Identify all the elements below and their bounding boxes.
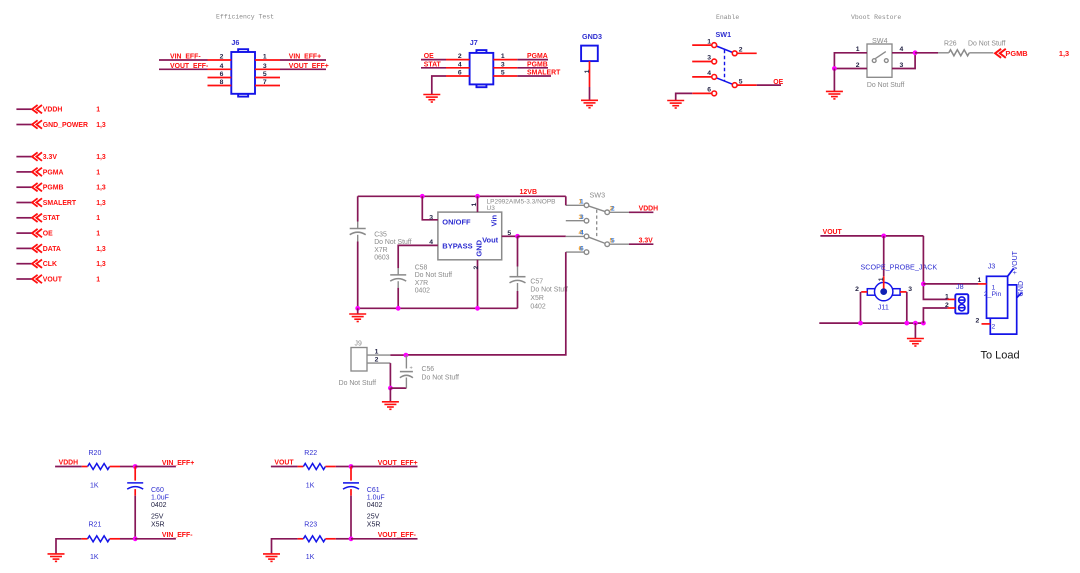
wire to ground SW4 (833, 69, 835, 92)
svg-text:3: 3 (580, 214, 584, 221)
wire VOUT rail (820, 235, 923, 237)
svg-text:Do Not Stuff: Do Not Stuff (867, 82, 904, 89)
J8 pin 2 (948, 307, 956, 309)
svg-text:4: 4 (580, 230, 584, 237)
svg-text:3.3V: 3.3V (43, 154, 58, 161)
wire to C56 bottom (390, 387, 406, 389)
junction vertical / J3 pin1 (921, 282, 926, 287)
svg-text:1: 1 (707, 38, 711, 45)
wire OE to J7 (421, 59, 446, 61)
wire VOUT_EFF+ ext (392, 466, 418, 468)
wire GND vertical to J8 pin2 (923, 308, 947, 323)
svg-text:1K: 1K (306, 482, 315, 489)
svg-text:PGMB: PGMB (527, 61, 548, 68)
J7 pin 2 (446, 59, 470, 61)
svg-text:1.0uF: 1.0uF (151, 494, 169, 501)
svg-text:0402: 0402 (151, 502, 167, 509)
svg-text:1,3: 1,3 (96, 154, 106, 161)
svg-text:J7: J7 (470, 38, 478, 47)
svg-text:1: 1 (96, 231, 100, 238)
svg-text:1: 1 (584, 69, 591, 73)
junction J9 / C56 (404, 353, 409, 358)
svg-text:2: 2 (945, 302, 949, 309)
svg-text:VIN_EFF-: VIN_EFF- (170, 54, 201, 61)
wire VIN_EFF- left (159, 59, 208, 61)
wire 12VB to SW3 pin1 (565, 196, 567, 205)
SW1 pin 6 (712, 91, 717, 96)
svg-text:SMALERT: SMALERT (43, 200, 77, 207)
J9 pin 1 (367, 354, 390, 356)
svg-text:OE: OE (773, 79, 783, 86)
port VDDH chevron (32, 105, 42, 113)
svg-text:1,3: 1,3 (96, 200, 106, 207)
svg-text:U3: U3 (487, 205, 496, 212)
svg-text:1: 1 (945, 294, 949, 301)
svg-text:8: 8 (220, 79, 224, 86)
SW1 lever 1-2 (716, 46, 732, 53)
svg-text:VIN_EFF+: VIN_EFF+ (289, 54, 321, 61)
wire port OE (16, 232, 31, 234)
svg-text:1: 1 (978, 277, 982, 284)
svg-text:VDDH: VDDH (43, 107, 63, 114)
junction VIN_EFF- (133, 536, 138, 541)
svg-text:SW1: SW1 (716, 30, 732, 39)
wire VIN_EFF- (135, 538, 176, 540)
junction rail / J11 pin2 (858, 321, 863, 326)
J7 pin 3 (493, 67, 517, 69)
svg-text:2_Pin: 2_Pin (984, 291, 1002, 298)
svg-text:VDDH: VDDH (639, 206, 659, 213)
wire VIN_EFF+ right (280, 59, 326, 61)
junction rail / vertical (921, 321, 926, 326)
svg-text:VOUT_EFF+: VOUT_EFF+ (289, 63, 329, 70)
svg-text:J11: J11 (878, 302, 889, 311)
wire Vout to SW3 (518, 235, 566, 237)
svg-text:CLK: CLK (43, 261, 57, 268)
svg-text:VIN_EFF-: VIN_EFF- (162, 532, 193, 539)
U3 pin 2 wire (477, 260, 479, 309)
port DATA chevron (32, 244, 42, 252)
svg-text:12VB: 12VB (520, 189, 538, 196)
svg-text:J9: J9 (355, 341, 362, 348)
svg-text:C35: C35 (374, 232, 387, 239)
svg-text:5: 5 (507, 230, 511, 237)
junction Vout / C57 (515, 234, 520, 239)
wire VDDH from SW3 pin2 (629, 211, 653, 213)
wire C57 to gnd rail (517, 291, 519, 308)
svg-text:4: 4 (707, 70, 711, 77)
svg-text:R20: R20 (89, 450, 102, 457)
svg-text:5: 5 (611, 237, 615, 244)
wire SMALERT (517, 75, 551, 77)
junction SW4 left (832, 66, 837, 71)
svg-text:Efficiency Test: Efficiency Test (216, 14, 274, 21)
svg-text:1: 1 (471, 202, 478, 206)
wire port CLK (16, 263, 31, 265)
svg-text:0402: 0402 (415, 288, 430, 295)
svg-text:1: 1 (375, 348, 379, 355)
wire Vout down to C57 (517, 236, 519, 266)
svg-text:Vout: Vout (482, 236, 499, 245)
J7 pin 4 (446, 67, 470, 69)
ground at C56 (382, 402, 399, 410)
svg-text:X5R: X5R (530, 295, 543, 302)
svg-text:4: 4 (220, 63, 224, 70)
svg-text:PGMB: PGMB (1005, 49, 1027, 58)
svg-text:1: 1 (878, 277, 885, 281)
J6 pin 2 (208, 59, 232, 61)
wire to R26 (915, 52, 938, 54)
SW1 pin 3 (712, 59, 717, 64)
svg-text:2: 2 (976, 317, 980, 324)
wire SW1 pin6 to ground (676, 93, 693, 100)
wire SW4 pin1 (834, 53, 867, 69)
wire port SMALERT (16, 202, 31, 204)
svg-text:1,3: 1,3 (96, 261, 106, 268)
wire port PGMA (16, 171, 31, 173)
wire port VDDH (16, 108, 31, 110)
junction VOUT_EFF- (349, 536, 354, 541)
wire SW4 pin2 (834, 68, 867, 70)
U3 pin 1 wire (477, 196, 479, 212)
wire ground rail (right) (819, 322, 923, 324)
J11 pin 3 (900, 291, 907, 293)
wire C58 to gnd rail (397, 288, 399, 309)
ground below GND3 (581, 100, 598, 108)
svg-text:1K: 1K (90, 482, 99, 489)
wire VOUT_EFF+ (351, 466, 392, 468)
svg-text:R23: R23 (304, 521, 317, 528)
SW1 pin 1 (712, 43, 717, 48)
junction VIN_EFF+ (133, 464, 138, 469)
svg-text:SW3: SW3 (590, 190, 606, 199)
junction SW4 right (913, 50, 918, 55)
wire C35 to gnd rail (357, 242, 359, 309)
svg-text:0402: 0402 (367, 502, 383, 509)
SW4 contacts (872, 52, 888, 63)
svg-text:1,3: 1,3 (96, 246, 106, 253)
wire J11 pin3 down (906, 292, 908, 323)
svg-text:Vboot Restore: Vboot Restore (851, 14, 901, 21)
port STAT chevron (32, 214, 42, 222)
svg-text:Do Not Stuff: Do Not Stuff (968, 40, 1005, 47)
wire port 3.3V (16, 156, 31, 158)
SW3 pin 3 (584, 218, 589, 223)
wire GND3 to ground (589, 87, 591, 100)
J6 pin 1 (255, 59, 280, 61)
svg-text:C61: C61 (367, 487, 380, 494)
capacitor C56 (405, 355, 407, 368)
svg-text:OE: OE (424, 53, 434, 60)
svg-text:5: 5 (739, 78, 743, 85)
J7 pin 5 (493, 75, 517, 77)
svg-text:2: 2 (992, 324, 996, 331)
wire port DATA (16, 247, 31, 249)
svg-text:0603: 0603 (374, 254, 389, 261)
svg-text:VOUT: VOUT (823, 229, 843, 236)
svg-text:2: 2 (458, 53, 462, 60)
U3 pin 5 wire (502, 235, 518, 237)
svg-text:6: 6 (220, 71, 224, 78)
ground at right rail (907, 339, 924, 347)
svg-text:1: 1 (96, 215, 100, 222)
port 3.3V chevron (32, 152, 42, 160)
capacitor C35 (350, 229, 366, 235)
svg-text:7: 7 (263, 79, 267, 86)
svg-text:5: 5 (263, 71, 267, 78)
capacitor C60 (134, 467, 136, 481)
wire VOUT_EFF- left (159, 68, 208, 70)
wire SW4 pin4 (892, 52, 915, 54)
junction rail / J11 pin3 (904, 321, 909, 326)
wire PGMB (517, 67, 548, 69)
svg-text:1: 1 (96, 276, 100, 283)
SW3 lever 1-2 (589, 206, 605, 212)
J6 pin 7 (255, 85, 280, 87)
svg-text:Enable: Enable (716, 14, 739, 21)
svg-text:VOUT: VOUT (43, 276, 63, 283)
wire 12VB down to C35 (357, 196, 359, 221)
svg-text:PGMB: PGMB (43, 185, 64, 192)
port PGMB chevron (32, 183, 42, 191)
svg-text:+: + (410, 366, 413, 372)
wire J7 pin6 to ground (432, 76, 446, 95)
svg-text:1,3: 1,3 (96, 185, 106, 192)
wire to ground (right) (914, 323, 916, 338)
wire VOUT_EFF+ right (280, 68, 326, 70)
svg-text:DATA: DATA (43, 246, 61, 253)
svg-text:X7R: X7R (374, 247, 387, 254)
svg-text:4: 4 (458, 61, 462, 68)
svg-text:OE: OE (43, 231, 53, 238)
port CLK chevron (32, 260, 42, 268)
J11 pin 2 (861, 291, 867, 293)
SW1 dashed link (724, 50, 726, 81)
wire rail to ground (357, 308, 359, 314)
op-amp U3 LP2992 regulator (438, 212, 502, 260)
svg-text:X7R: X7R (415, 280, 428, 287)
svg-text:3: 3 (429, 214, 433, 221)
wire J11 pin2 down (860, 292, 862, 323)
svg-text:C56: C56 (422, 366, 435, 373)
U3 pin 4 wire (398, 245, 438, 268)
wire J9 pin1 to node (390, 354, 406, 356)
SW3 pin 4 (584, 234, 589, 239)
port SMALERT chevron (32, 198, 42, 206)
svg-text:1K: 1K (306, 554, 315, 561)
capacitor C58 (390, 275, 406, 281)
svg-text:VIN_EFF+: VIN_EFF+ (162, 460, 194, 467)
wire port PGMB (16, 186, 31, 188)
svg-text:2: 2 (220, 54, 224, 61)
wire OE from SW1 (757, 84, 781, 86)
svg-text:GND3: GND3 (582, 32, 602, 41)
J6 pin 5 (255, 77, 280, 79)
svg-text:VDDH: VDDH (59, 460, 79, 467)
svg-text:6: 6 (707, 87, 711, 94)
svg-text:J6: J6 (231, 38, 239, 47)
svg-text:BYPASS: BYPASS (442, 241, 472, 250)
svg-text:25V: 25V (151, 513, 164, 520)
svg-text:C60: C60 (151, 487, 164, 494)
J6 pin 4 (208, 68, 232, 70)
ground at J7 (423, 95, 440, 103)
svg-text:2: 2 (611, 206, 615, 213)
svg-text:GND: GND (1018, 281, 1025, 297)
J11 body (867, 282, 900, 300)
SW3 pin 5 (605, 242, 610, 247)
svg-text:Do Not Stuff: Do Not Stuff (339, 380, 376, 387)
wire SW4 pin3 (892, 53, 915, 69)
svg-text:Vin: Vin (490, 215, 499, 227)
SW1 pin 5 (732, 83, 737, 88)
svg-text:R26: R26 (944, 40, 957, 47)
svg-text:1: 1 (96, 169, 100, 176)
ground at R23 (263, 554, 280, 562)
SW3 lever 4-5 (589, 237, 605, 243)
svg-text:Do Not Stuff: Do Not Stuff (422, 374, 459, 381)
junction 12VB / ON-OFF (420, 194, 425, 199)
svg-text:25V: 25V (367, 513, 380, 520)
svg-text:PGMA: PGMA (43, 169, 64, 176)
J6 pin 8 (208, 85, 232, 87)
svg-text:2: 2 (375, 356, 379, 363)
wire port VOUT (16, 278, 31, 280)
wire 12VB rail (358, 195, 566, 197)
svg-text:J3: J3 (988, 261, 996, 270)
svg-text:1,3: 1,3 (1059, 49, 1069, 58)
svg-text:2: 2 (739, 47, 743, 54)
svg-text:LP2992AIM5-3.3/NOPB: LP2992AIM5-3.3/NOPB (487, 199, 556, 206)
svg-text:Do Not Stuff: Do Not Stuff (530, 287, 567, 294)
wire down to J11 pin1 (883, 236, 885, 276)
junction rail / C35 (355, 306, 360, 311)
junction rail / C58 (396, 306, 401, 311)
J11 pin 1 (883, 276, 885, 288)
junction VOUT_EFF+ (349, 464, 354, 469)
svg-text:GND_POWER: GND_POWER (43, 122, 88, 129)
wire VOUT vertical (923, 236, 947, 300)
svg-text:6: 6 (580, 245, 584, 252)
junction C56 gnd (388, 386, 393, 391)
wire port STAT (16, 217, 31, 219)
wire J9 pin2 down (389, 363, 391, 388)
svg-text:0402: 0402 (530, 304, 545, 311)
port VOUT chevron (32, 275, 42, 283)
svg-text:STAT: STAT (43, 215, 61, 222)
junction rail / ground tap (913, 321, 918, 326)
J3 pin 2 stub (982, 323, 991, 325)
wire PGMA (517, 59, 548, 61)
svg-text:PGMA: PGMA (527, 53, 548, 60)
svg-text:SCOPE_PROBE_JACK: SCOPE_PROBE_JACK (861, 263, 938, 272)
ground at SW1 (667, 101, 684, 109)
svg-text:3.3V: 3.3V (639, 238, 654, 245)
J7 pin 1 (493, 59, 517, 61)
wire VOUT_EFF- ext (392, 538, 418, 540)
SW1 pin 2 (732, 51, 737, 56)
svg-text:3: 3 (707, 55, 711, 62)
svg-text:+VOUT: +VOUT (1012, 250, 1019, 274)
svg-text:X5R: X5R (367, 521, 381, 528)
port OE chevron (32, 229, 42, 237)
SW3 pin 1 (584, 203, 589, 208)
wire VOUT_EFF- (351, 538, 392, 540)
port PGMA chevron (32, 168, 42, 176)
wire to J3 pin1 (923, 283, 978, 285)
svg-text:1.0uF: 1.0uF (367, 494, 385, 501)
svg-text:2: 2 (473, 265, 480, 269)
svg-text:3: 3 (908, 286, 912, 293)
svg-text:1,3: 1,3 (96, 122, 106, 129)
wire 3.3V from SW3 pin5 (629, 243, 653, 245)
U3 pin 3 wire (422, 196, 438, 220)
capacitor C61 (350, 467, 352, 481)
ground at SW4 (826, 91, 843, 99)
ground at regulator (349, 314, 366, 322)
svg-text:3: 3 (501, 61, 505, 68)
J6 pin 3 (255, 68, 280, 70)
svg-text:J8: J8 (956, 282, 964, 291)
svg-text:4: 4 (429, 239, 433, 246)
svg-text:ON/OFF: ON/OFF (442, 217, 471, 226)
svg-text:STAT: STAT (424, 61, 442, 68)
svg-text:SMALERT: SMALERT (527, 70, 561, 77)
SW3 pin 2 (605, 210, 610, 215)
svg-text:VOUT_EFF-: VOUT_EFF- (170, 63, 209, 70)
wire to ground at C56 (389, 388, 391, 402)
svg-text:1: 1 (580, 199, 584, 206)
J9 pin 2 (367, 362, 390, 364)
svg-text:3: 3 (263, 63, 267, 70)
svg-text:X5R: X5R (151, 521, 165, 528)
J8 pin 1 (948, 298, 956, 300)
SW1 pin 4 (712, 75, 717, 80)
svg-text:GND: GND (475, 239, 484, 256)
junction 12VB / Vin (475, 194, 480, 199)
port GND_POWER chevron (32, 120, 42, 128)
svg-text:6: 6 (458, 70, 462, 77)
J6 pin 6 (208, 77, 232, 79)
svg-text:R22: R22 (304, 450, 317, 457)
SW3 dashed link (596, 210, 598, 238)
wire ground rail (regulator) (358, 307, 518, 309)
svg-text:Do Not Stuff: Do Not Stuff (415, 272, 452, 279)
svg-text:C58: C58 (415, 264, 428, 271)
GND3 pin 1 (589, 61, 591, 87)
svg-text:1: 1 (501, 53, 505, 60)
SW1 lever 4-5 (716, 78, 732, 85)
svg-text:To Load: To Load (981, 349, 1020, 361)
J8 screw terminals (959, 297, 965, 311)
J7 pin 6 (446, 75, 470, 77)
wire port GND_POWER (16, 124, 31, 126)
wire VIN_EFF+ (135, 466, 176, 468)
svg-text:1: 1 (96, 107, 100, 114)
port PGMB chevron at R26 (995, 49, 1006, 58)
svg-text:2: 2 (855, 286, 859, 293)
svg-text:5: 5 (501, 70, 505, 77)
wire SW3 pin6 down to J9 row (406, 252, 566, 355)
svg-text:C57: C57 (530, 278, 543, 285)
junction rail / U3 GND (475, 306, 480, 311)
wire STAT to J7 (421, 67, 446, 69)
junction VOUT / J11 (881, 234, 886, 239)
svg-text:R21: R21 (89, 521, 102, 528)
svg-text:1: 1 (263, 54, 267, 61)
svg-text:VOUT: VOUT (274, 460, 294, 467)
capacitor C57 (510, 277, 526, 283)
